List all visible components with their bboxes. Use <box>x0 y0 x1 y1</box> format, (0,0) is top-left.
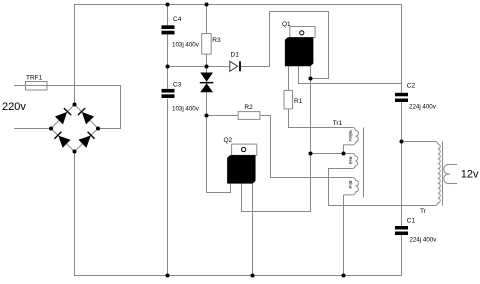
diode D1 <box>230 61 240 71</box>
svg-text:R2: R2 <box>244 104 253 111</box>
node bridge left <box>49 127 53 131</box>
wire Q1 pin1 to R1 <box>288 66 290 90</box>
wire blue coil bottom to bottom rail <box>343 195 345 276</box>
capacitor C3 <box>162 89 175 98</box>
capacitor C4 <box>162 25 175 34</box>
node y66 diac <box>205 65 209 69</box>
node bridge right <box>96 127 100 131</box>
svg-text:Tr: Tr <box>420 208 427 215</box>
wire gate of Q2 <box>207 116 231 193</box>
wire R3 bottom to diac <box>206 54 208 72</box>
svg-text:Red: Red <box>348 157 353 165</box>
transformer Tr1 yellow coil <box>344 128 359 154</box>
bridge diode bottom-left <box>54 132 69 147</box>
transformer Tr1 blue coil <box>344 178 359 195</box>
svg-text:C3: C3 <box>173 82 182 89</box>
wire fuse line <box>14 86 121 129</box>
wire AC lower <box>14 128 51 130</box>
transistor Q1 <box>285 27 315 67</box>
capacitor C1 <box>395 226 408 235</box>
wire Q1 pin2 to C2 node <box>299 66 402 84</box>
svg-text:103j 400v: 103j 400v <box>172 106 200 113</box>
svg-text:12v: 12v <box>461 169 479 181</box>
transformer Tr core <box>442 142 444 206</box>
wire Q2 right pin <box>252 183 254 275</box>
bridge diode top-right <box>78 108 93 124</box>
node top rail R3 <box>205 3 209 7</box>
svg-text:D1: D1 <box>231 52 240 59</box>
wire top rail <box>75 5 402 105</box>
svg-text:Blue: Blue <box>348 181 353 190</box>
node bottom rail Q2 <box>251 274 255 278</box>
svg-text:103j 400v: 103j 400v <box>172 42 200 49</box>
svg-text:R3: R3 <box>212 37 221 44</box>
svg-text:220v: 220v <box>2 101 26 113</box>
node diac R2 <box>205 114 209 118</box>
wire diac node to R2 <box>207 115 239 117</box>
node bottom rail blue <box>342 274 346 278</box>
node y66 C4 <box>166 65 170 69</box>
wire C2 bottom to C1 top <box>401 102 403 226</box>
wire D1 to Q1 loop <box>241 12 329 79</box>
wire node row y154 <box>311 153 353 155</box>
node C2 Tr <box>400 140 404 144</box>
resistor R1 <box>284 90 293 109</box>
node bottom rail C3 <box>166 274 170 278</box>
wire R1 bottom to Tr1 yellow <box>289 109 353 128</box>
capacitor C2 <box>395 93 408 102</box>
bridge diode bottom-right <box>79 132 94 147</box>
svg-text:Yellow: Yellow <box>348 130 353 143</box>
svg-text:C2: C2 <box>407 83 416 90</box>
node y154 yellow <box>342 152 346 156</box>
transformer Tr secondary <box>444 164 457 183</box>
wire R3 top <box>206 5 208 34</box>
transformer Tr1 core <box>363 128 365 198</box>
svg-text:C4: C4 <box>173 16 182 23</box>
wire C4 to node <box>167 35 169 89</box>
svg-text:Q1: Q1 <box>282 21 291 28</box>
transformer Tr primary <box>435 142 440 206</box>
wire node row y66 <box>168 66 230 68</box>
node bridge top <box>73 103 77 107</box>
wire Q1 pin3 column <box>310 66 312 212</box>
svg-text:Tr1: Tr1 <box>333 120 343 127</box>
transformer Tr1 red coil <box>353 154 358 169</box>
svg-text:224j 400v: 224j 400v <box>409 103 437 110</box>
wire Q2 middle pin <box>242 154 311 212</box>
svg-text:R1: R1 <box>294 98 303 105</box>
resistor R2 <box>238 112 260 120</box>
resistor R3 <box>202 34 212 55</box>
diac <box>200 73 214 93</box>
svg-text:224j 400v: 224j 400v <box>410 236 438 243</box>
bridge diode top-left <box>56 108 71 124</box>
wire red coil bottom to Tr primary bottom <box>329 169 436 206</box>
node y154 pin3 column <box>309 152 313 156</box>
svg-text:TRF1: TRF1 <box>26 75 43 82</box>
node top rail C4 <box>166 3 170 7</box>
wire C3 to bottom rail <box>167 99 169 276</box>
transistor Q2 <box>227 144 256 183</box>
svg-text:C1: C1 <box>407 218 416 225</box>
wire bottom rail <box>75 152 402 276</box>
wire Tr primary top <box>402 141 436 143</box>
wire R2 right to Tr1 blue <box>260 116 353 178</box>
svg-text:Q2: Q2 <box>224 137 233 144</box>
fuse TRF1 <box>26 82 48 91</box>
wire diac to R2 node <box>206 92 208 116</box>
wire C4 column top <box>167 5 169 26</box>
node Q1 pin3 <box>309 77 313 81</box>
bridge rectifier frame <box>51 105 98 152</box>
node bridge bottom <box>73 150 77 154</box>
